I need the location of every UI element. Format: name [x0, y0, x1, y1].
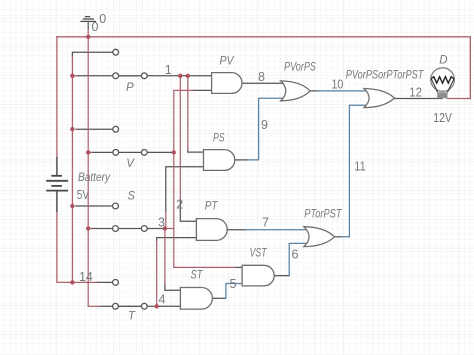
wire PS out stub [235, 159, 248, 161]
junction node 0 at ground/top rail [86, 35, 90, 39]
wire S row stub from vertical [88, 228, 92, 230]
wire riser S up to PS [165, 212, 167, 229]
junction node 3 [163, 226, 167, 230]
wire battery bottom lead to return row [57, 212, 97, 282]
wire top rail net 0 [57, 36, 470, 38]
wire P stub row [72, 52, 112, 56]
junction node 1 to PT riser [178, 74, 182, 78]
wire riser V down to VST [174, 152, 235, 267]
svg-text:3: 3 [158, 215, 165, 229]
svg-text:0: 0 [92, 20, 99, 34]
svg-text:PVorPSorPTorPST: PVorPSorPTorPST [346, 69, 424, 81]
svg-text:P: P [126, 82, 134, 94]
svg-text:PV: PV [220, 56, 235, 68]
wire net 10 PVorPS to final OR [318, 90, 370, 92]
junction node 1 to PS riser [186, 74, 190, 78]
svg-text:12V: 12V [433, 111, 452, 125]
switch S upper throw terminal [113, 203, 119, 209]
wire S node stub right [165, 228, 174, 230]
switch V [113, 150, 147, 156]
wire lamp right stub [447, 98, 470, 100]
wire net 6 VST to PTorPST [289, 243, 309, 275]
and-gate PV [212, 73, 242, 94]
wire P row switch to PV input [147, 75, 211, 77]
wire right rail [469, 37, 471, 99]
svg-text:10: 10 [332, 77, 344, 91]
wire ground vertical [87, 37, 89, 307]
wire P row to switch [77, 75, 113, 77]
wire T row to switch [100, 305, 113, 307]
svg-text:V: V [126, 158, 135, 170]
wire net 7 PT to PTorPST [246, 229, 309, 231]
wire T row switch to node 4 [147, 305, 157, 307]
junction S row feed [86, 226, 90, 230]
and-gate PT [196, 219, 227, 241]
svg-text:8: 8 [258, 70, 265, 84]
wire VST input A stub [235, 266, 242, 268]
wire riser V to PV input B [174, 90, 193, 152]
svg-text:PVorPS: PVorPS [284, 61, 316, 73]
junction node 4 [155, 304, 159, 308]
svg-text:1: 1 [165, 63, 172, 77]
wire net 9 PS to PVorPS [248, 98, 284, 160]
svg-text:VST: VST [250, 248, 268, 260]
lamp D [431, 68, 455, 99]
wire S row to switch [92, 228, 113, 230]
svg-text:PTorPST: PTorPST [304, 208, 342, 220]
svg-text:PT: PT [205, 201, 219, 213]
svg-text:7: 7 [262, 216, 269, 230]
switch T [113, 303, 148, 309]
wire ST input A stub [165, 284, 181, 290]
wire PT input A stub [180, 201, 196, 221]
svg-text:D: D [439, 55, 447, 67]
svg-text:11: 11 [354, 159, 365, 173]
junction V node risers [172, 150, 176, 154]
wire PV input B stub [193, 89, 212, 91]
switch T upper throw terminal [113, 280, 119, 286]
wire PS input B stub [166, 167, 204, 212]
wire VST out stub [274, 275, 289, 277]
or-gate PVorPSorPTorPST [364, 89, 395, 108]
and-gate PS [204, 150, 235, 171]
wire riser S down to ST [164, 229, 166, 285]
svg-text:PS: PS [213, 133, 225, 145]
junction V stub feed [70, 127, 74, 131]
or-gate PVorPS [281, 81, 310, 101]
wire battery top lead [56, 37, 58, 157]
junction node 14 battery return [70, 280, 74, 284]
wire S stub row [76, 205, 113, 207]
switch S [113, 226, 148, 232]
svg-text:ST: ST [191, 270, 204, 282]
wire T stub row (battery return) [97, 281, 113, 283]
wire T row corner [88, 305, 100, 307]
wire ground stem lower [87, 29, 89, 37]
wire PT input B stub [157, 238, 197, 241]
wire PS input A stub [188, 150, 204, 153]
junction V row feed [86, 150, 90, 154]
wire riser P to PS [187, 76, 189, 150]
wire V stub row [76, 128, 113, 130]
svg-text:2: 2 [176, 197, 183, 211]
wire net 8 PV out to PVorPS [242, 82, 284, 84]
wire PVorPS out stub [310, 90, 318, 92]
switch P upper throw terminal [113, 49, 119, 55]
or-gate PTorPST [304, 227, 335, 247]
wire left distribution vertical [71, 57, 73, 283]
wire V row stub from vertical [88, 151, 92, 153]
wire V row switch to node [147, 151, 174, 153]
and-gate ST [180, 288, 212, 310]
wire node 4 to ST input B [157, 305, 181, 307]
switch P [113, 73, 147, 79]
switch V upper throw terminal [113, 126, 119, 132]
wire net 11 PTorPST to final OR [342, 105, 370, 237]
wire net 12 to lamp [395, 98, 443, 100]
wire S row switch to node 3 [147, 228, 165, 230]
wire ST out stub [212, 297, 226, 299]
junction S stub feed [70, 204, 74, 208]
svg-text:0: 0 [99, 12, 106, 26]
and-gate VST [242, 265, 274, 286]
svg-text:Battery: Battery [78, 172, 111, 184]
wire net 5 ST to VST [226, 284, 242, 299]
svg-text:9: 9 [261, 118, 268, 132]
svg-text:6: 6 [292, 248, 299, 262]
svg-text:S: S [127, 191, 135, 203]
wire PTorPST out stub [335, 236, 343, 238]
wire riser P to PT net 2 [179, 76, 181, 201]
ground symbol net 0 [80, 17, 96, 29]
svg-text:5V: 5V [77, 188, 90, 202]
svg-text:14: 14 [79, 270, 93, 284]
junction P row feed [70, 74, 74, 78]
wire P row stub from vertical [72, 75, 77, 77]
wire PT out stub [227, 229, 246, 231]
battery B1 [46, 157, 68, 212]
svg-text:5: 5 [230, 277, 237, 291]
svg-text:4: 4 [159, 293, 166, 307]
svg-text:T: T [128, 310, 136, 322]
svg-text:12: 12 [409, 86, 422, 100]
wire riser T up to PT [156, 241, 158, 306]
wire V row to switch [92, 151, 113, 153]
